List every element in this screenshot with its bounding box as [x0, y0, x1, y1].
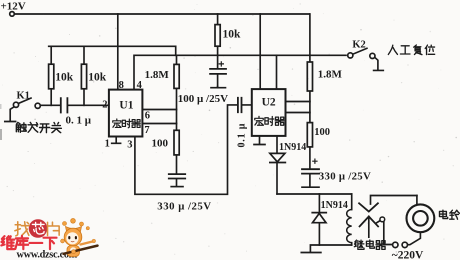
svg-text:1.8M: 1.8M	[145, 69, 170, 81]
svg-text:0.1 μ: 0.1 μ	[237, 123, 248, 148]
svg-text:K2: K2	[352, 40, 365, 51]
svg-text:330 μ /25V: 330 μ /25V	[157, 200, 211, 212]
svg-text:0. 1 μ: 0. 1 μ	[66, 115, 92, 127]
svg-text:7: 7	[144, 125, 149, 136]
svg-text:2: 2	[102, 100, 107, 111]
svg-text:~220V: ~220V	[392, 249, 424, 260]
svg-text:1.8M: 1.8M	[318, 69, 343, 81]
svg-text:K1: K1	[17, 90, 30, 101]
svg-text:6: 6	[145, 111, 150, 122]
svg-text:100 μ /25V: 100 μ /25V	[178, 93, 228, 105]
svg-text:100: 100	[314, 127, 330, 138]
svg-text:8: 8	[119, 80, 124, 91]
svg-text:100: 100	[152, 138, 169, 150]
svg-text:4: 4	[137, 80, 143, 91]
svg-text:330 μ /25V: 330 μ /25V	[319, 170, 371, 182]
svg-text:U1: U1	[119, 100, 133, 112]
svg-text:10k: 10k	[223, 28, 242, 40]
svg-text:1N914: 1N914	[321, 200, 348, 211]
svg-text:1: 1	[105, 139, 110, 150]
svg-text:10k: 10k	[55, 71, 73, 83]
svg-text:1N914: 1N914	[279, 142, 306, 153]
svg-text:U2: U2	[262, 97, 276, 109]
svg-text:3: 3	[127, 140, 132, 151]
svg-text:+12V: +12V	[1, 1, 26, 13]
svg-text:10k: 10k	[88, 71, 107, 83]
